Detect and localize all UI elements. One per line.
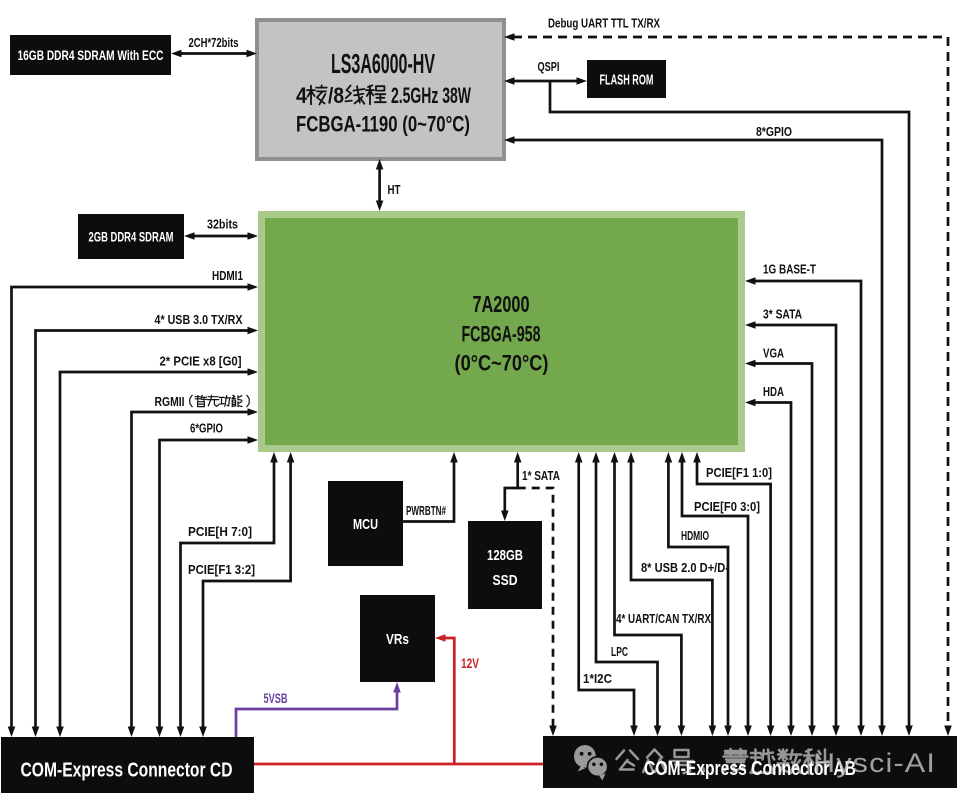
svg-text:FLASH ROM: FLASH ROM xyxy=(600,72,654,89)
svg-text:RGMII: RGMII xyxy=(155,394,185,409)
svg-text:6*GPIO: 6*GPIO xyxy=(190,421,223,436)
svg-text:2* PCIE x8 [G0]: 2* PCIE x8 [G0] xyxy=(160,354,242,369)
svg-text:(0°C~70°C): (0°C~70°C) xyxy=(455,351,549,376)
svg-text:5VSB: 5VSB xyxy=(264,690,288,706)
svg-text:PCIE[F1 1:0]: PCIE[F1 1:0] xyxy=(706,465,772,480)
svg-text:FCBGA-1190 (0~70°C): FCBGA-1190 (0~70°C) xyxy=(296,112,470,137)
svg-text:7A2000: 7A2000 xyxy=(473,291,530,317)
block RAM1: 16GB DDR4 SDRAM With ECC xyxy=(10,35,171,75)
svg-text:3* SATA: 3* SATA xyxy=(763,307,802,322)
wire PCIE[H 7:0] 7A2000 to connector CD xyxy=(177,452,278,737)
svg-text:4* USB 3.0 TX/RX: 4* USB 3.0 TX/RX xyxy=(155,312,243,327)
svg-text:HDMIO: HDMIO xyxy=(681,528,709,543)
svg-text:2GB DDR4 SDRAM: 2GB DDR4 SDRAM xyxy=(89,229,174,245)
svg-text:8* USB 2.0 D+/D-: 8* USB 2.0 D+/D- xyxy=(641,560,729,575)
wire PCIE[F1 3:2] 7A2000 to connector CD xyxy=(188,452,294,737)
svg-text:1* SATA: 1* SATA xyxy=(522,468,560,483)
svg-text:2.5GHz 38W: 2.5GHz 38W xyxy=(391,83,471,108)
svg-text:PCIE[F1 3:2]: PCIE[F1 3:2] xyxy=(188,562,255,577)
wire HDMI1 to connector CD xyxy=(8,268,258,737)
svg-text:1*I2C: 1*I2C xyxy=(583,671,613,686)
wire 2* PCIE x8 [G0] to connector CD xyxy=(56,354,258,738)
svg-text:8*GPIO: 8*GPIO xyxy=(756,124,792,139)
svg-text:QSPI: QSPI xyxy=(538,59,560,74)
wire PCIE[F0 3:0] 7A2000 to connector AB xyxy=(678,452,760,736)
wire HDA 7A2000 to connector AB xyxy=(745,384,795,736)
block U3: MCU xyxy=(328,481,403,566)
block J2: COM-Express Connector AB (bar only) xyxy=(543,736,957,788)
wire HT link CPU to 7A2000 xyxy=(376,159,401,211)
wire PWRBTN# MCU to 7A2000 xyxy=(403,452,458,522)
wire 5VSB purple from connector CD to VRs xyxy=(236,682,401,737)
wire VGA 7A2000 to connector AB xyxy=(745,346,816,737)
wire 4* USB 3.0 TX/RX to connector CD xyxy=(32,312,258,737)
svg-text:/8: /8 xyxy=(328,83,344,108)
block RAM2: 2GB DDR4 SDRAM xyxy=(78,214,184,259)
svg-text:VRs: VRs xyxy=(386,631,409,648)
wire QSPI CPU to FLASH ROM xyxy=(504,59,587,85)
block SSD1: 128GB SSD xyxy=(468,521,542,609)
svg-text:PCIE[F0 3:0]: PCIE[F0 3:0] xyxy=(694,499,760,514)
svg-text:4: 4 xyxy=(296,83,308,108)
svg-text:LPC: LPC xyxy=(611,644,628,659)
svg-text:32bits: 32bits xyxy=(207,217,238,232)
svg-text:12V: 12V xyxy=(461,655,479,671)
wire 6*GPIO to connector CD xyxy=(156,421,258,738)
wire PCIE[F1 1:0] 7A2000 to connector AB xyxy=(693,452,774,736)
svg-text:1G BASE-T: 1G BASE-T xyxy=(763,262,816,277)
svg-text:HT: HT xyxy=(388,182,401,197)
wire RGMII (no function) to connector CD xyxy=(128,394,258,737)
wire 2CH*72bits DDR4 bus with label xyxy=(171,35,257,57)
watermark Hysci-AI light gray xyxy=(813,748,936,778)
wire 1*I2C 7A2000 to connector AB xyxy=(575,452,638,736)
svg-text:VGA: VGA xyxy=(763,346,784,361)
svg-text:LS3A6000-HV: LS3A6000-HV xyxy=(331,48,435,79)
svg-text:HDMI1: HDMI1 xyxy=(212,268,243,283)
wire 32bits DDR4 bus to 7A2000 xyxy=(184,217,258,240)
svg-text:16GB DDR4 SDRAM With ECC: 16GB DDR4 SDRAM With ECC xyxy=(18,47,164,63)
svg-text:128GB: 128GB xyxy=(487,547,523,564)
svg-text:4* UART/CAN TX/RX: 4* UART/CAN TX/RX xyxy=(616,611,711,626)
wire 4* UART/CAN TX/RX 7A2000 to connector AB xyxy=(611,452,712,736)
block U1: LS3A6000-HV CPU xyxy=(257,20,504,159)
svg-text:PWRBTN#: PWRBTN# xyxy=(406,503,446,518)
wire QSPI branch down to connector AB xyxy=(550,81,913,736)
svg-text:Hysci-AI: Hysci-AI xyxy=(813,748,936,778)
svg-text:2CH*72bits: 2CH*72bits xyxy=(189,35,239,50)
wire 3* SATA 7A2000 to connector AB xyxy=(745,307,840,737)
block VR1: VRs voltage regulators xyxy=(360,595,435,682)
wire HDMIO 7A2000 to connector AB xyxy=(665,452,732,736)
block U2: 7A2000 bridge chip xyxy=(258,211,745,452)
svg-text:Debug UART TTL TX/RX: Debug UART TTL TX/RX xyxy=(548,16,660,31)
wire LPC 7A2000 to connector AB xyxy=(592,452,661,736)
svg-text:FCBGA-958: FCBGA-958 xyxy=(462,322,541,347)
svg-text:HDA: HDA xyxy=(763,384,784,399)
wire 8*GPIO CPU to connector AB xyxy=(504,124,886,736)
block ROM1: FLASH ROM xyxy=(587,60,666,98)
svg-text:SSD: SSD xyxy=(493,572,518,589)
block J1: COM-Express Connector CD xyxy=(1,737,254,793)
svg-text:COM-Express Connector CD: COM-Express Connector CD xyxy=(21,760,233,782)
wire Debug UART TTL TX/RX (dashed) to connector AB xyxy=(504,16,952,737)
wire 1G BASE-T 7A2000 to connector AB xyxy=(745,262,865,737)
wire 12V red from connectors to VRs xyxy=(254,634,543,764)
wire 1* SATA 7A2000 to SSD (solid) xyxy=(501,452,560,521)
wire 1* SATA dashed branch to connector AB xyxy=(518,488,557,736)
watermark WeChat icon and gray CJK text xyxy=(574,745,829,781)
svg-text:PCIE[H 7:0]: PCIE[H 7:0] xyxy=(188,524,252,539)
text label on connector AB xyxy=(644,758,856,780)
svg-text:MCU: MCU xyxy=(353,516,378,533)
wire 8* USB 2.0 D+/D- 7A2000 to connector AB xyxy=(627,452,729,736)
